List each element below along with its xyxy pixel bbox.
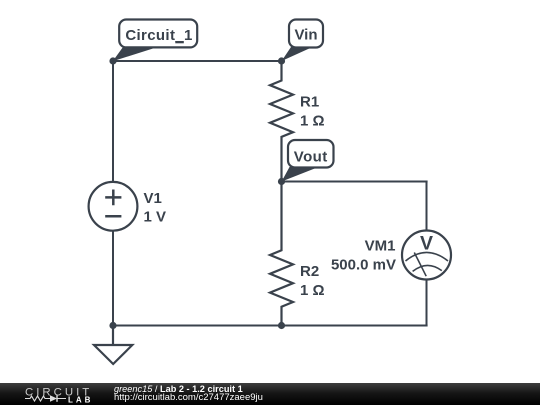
flag Vout tail (282, 167, 319, 182)
svg-text:R1: R1 (300, 94, 319, 111)
footer bar (0, 383, 540, 405)
voltage source V1 (89, 182, 138, 231)
svg-text:VM1: VM1 (365, 238, 396, 255)
ground (94, 326, 132, 365)
logo wire squiggle and diode (25, 396, 66, 401)
node R2 bottom junction dot (278, 322, 285, 329)
node Vout junction dot (278, 178, 285, 185)
CircuitLab logo (0, 383, 110, 405)
voltmeter VM1 (402, 231, 451, 280)
wire from V1 bottom to ground node (112, 230, 114, 326)
flag Circuit_1 bubble (119, 20, 197, 48)
svg-text:LAB: LAB (68, 395, 93, 404)
node Vin junction dot (278, 57, 285, 64)
svg-text:1 Ω: 1 Ω (300, 282, 325, 299)
node Circuit_1 junction dot (109, 57, 116, 64)
resistor R2 (270, 182, 293, 326)
svg-text:500.0 mV: 500.0 mV (331, 256, 396, 273)
flag Vin bubble (289, 20, 323, 48)
wire top horizontal net Vin (113, 60, 282, 62)
wire Vout horizontal to voltmeter (282, 181, 428, 183)
svg-text:Vin: Vin (294, 27, 317, 44)
wire bottom horizontal ground net (113, 325, 428, 327)
svg-text:1 Ω: 1 Ω (300, 112, 325, 129)
svg-text:R2: R2 (300, 263, 319, 280)
svg-text:1 V: 1 V (144, 209, 167, 226)
wire voltmeter bottom lead (426, 279, 428, 326)
svg-text:V1: V1 (144, 190, 162, 207)
flag Circuit_1 tail (113, 47, 158, 61)
wire left vertical from Circuit_1 node to V1 top (112, 61, 114, 182)
resistor R1 (270, 61, 293, 182)
node ground junction dot (109, 322, 116, 329)
label Circuit_1 underscore stroke (175, 41, 184, 43)
flag Vout bubble (288, 140, 334, 168)
wire voltmeter top lead (426, 181, 428, 231)
flag Vin tail (282, 47, 313, 61)
svg-text:Vout: Vout (294, 149, 328, 166)
svg-text:V: V (420, 232, 433, 254)
